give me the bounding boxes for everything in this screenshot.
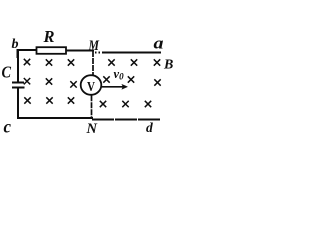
wire b down to capacitor (17, 50, 19, 82)
wire resistor to node M (66, 50, 94, 52)
svg-text:C: C (2, 63, 12, 82)
wire b to resistor (18, 50, 37, 58)
rod MN upper segment (92, 51, 94, 76)
rail M to a (95, 52, 161, 54)
magnetic field x marks (24, 59, 161, 107)
resistor R (37, 47, 67, 54)
svg-text:V: V (87, 80, 95, 95)
svg-text:d: d (146, 120, 153, 135)
svg-text:N: N (86, 121, 98, 137)
rod MN lower segment (91, 95, 93, 119)
velocity arrow v0 (102, 84, 128, 89)
voltmeter V (81, 75, 102, 95)
rail N to d (92, 119, 160, 121)
wire c to N (bottom) (17, 117, 93, 119)
svg-text:c: c (4, 117, 12, 137)
wire capacitor to node c (17, 89, 18, 119)
svg-text:a: a (154, 34, 165, 53)
svg-text:B: B (163, 58, 173, 73)
svg-text:R: R (43, 27, 55, 46)
capacitor C (12, 83, 25, 88)
svg-text:v0: v0 (114, 67, 125, 82)
